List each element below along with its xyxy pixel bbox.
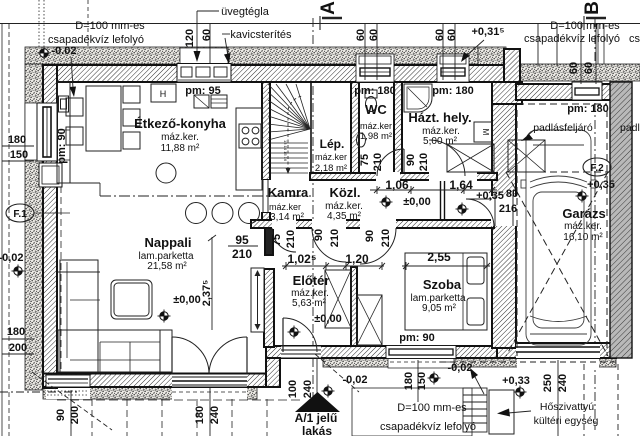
svg-text:120: 120 [184, 29, 196, 47]
svg-text:±0,00: ±0,00 [314, 313, 341, 325]
svg-text:90: 90 [405, 154, 417, 166]
svg-text:90: 90 [364, 230, 376, 242]
svg-text:240: 240 [557, 374, 569, 392]
svg-text:±0,00: ±0,00 [403, 196, 430, 208]
svg-text:csapadékvíz lefolyó: csapadékvíz lefolyó [524, 33, 620, 45]
svg-text:210: 210 [372, 153, 384, 171]
svg-text:210: 210 [329, 229, 341, 247]
svg-text:60: 60 [446, 29, 458, 41]
svg-text:240: 240 [302, 380, 314, 398]
svg-text:16,10 m²: 16,10 m² [563, 232, 603, 243]
svg-text:D=100 mm-es: D=100 mm-es [75, 20, 145, 32]
svg-text:B: B [582, 1, 603, 15]
svg-text:csapadékvíz lefolyó: csapadékvíz lefolyó [380, 421, 476, 433]
svg-text:máz.ker.: máz.ker. [161, 132, 199, 143]
svg-text:cs: cs [629, 33, 640, 45]
svg-text:90: 90 [55, 409, 67, 421]
svg-text:Lép.: Lép. [320, 137, 345, 151]
svg-text:180: 180 [8, 134, 26, 146]
svg-text:210: 210 [418, 153, 430, 171]
svg-text:11,88 m²: 11,88 m² [161, 143, 200, 154]
svg-text:pm: 90: pm: 90 [56, 128, 68, 163]
svg-text:Házt. hely.: Házt. hely. [408, 110, 471, 125]
svg-text:padlásfeljáró: padlásfeljáró [533, 122, 593, 134]
svg-text:90: 90 [313, 229, 325, 241]
svg-text:21,58 m²: 21,58 m² [147, 261, 187, 272]
svg-text:-0.02: -0.02 [51, 45, 76, 57]
svg-text:F.2: F.2 [590, 163, 604, 174]
svg-text:240: 240 [209, 406, 221, 424]
svg-text:Garázs: Garázs [562, 206, 605, 221]
svg-text:pm: 180: pm: 180 [432, 85, 474, 97]
svg-text:210: 210 [380, 229, 392, 247]
svg-text:60: 60 [434, 29, 446, 41]
svg-text:1,06: 1,06 [385, 178, 409, 192]
svg-text:150: 150 [416, 372, 428, 390]
svg-text:9,05 m²: 9,05 m² [422, 303, 457, 314]
svg-text:Nappali: Nappali [145, 235, 192, 250]
svg-text:60: 60 [568, 62, 580, 74]
svg-text:60: 60 [201, 29, 213, 41]
svg-text:100: 100 [287, 380, 299, 398]
svg-text:5,63 m²: 5,63 m² [292, 298, 327, 309]
svg-text:máz.ker.: máz.ker. [564, 221, 602, 232]
svg-text:-0,02: -0,02 [447, 362, 472, 374]
svg-text:Előtér: Előtér [293, 273, 330, 288]
svg-text:150: 150 [10, 149, 28, 161]
svg-text:pm: 95: pm: 95 [185, 85, 220, 97]
svg-text:D=100 mm-es: D=100 mm-es [550, 20, 620, 32]
svg-text:80: 80 [506, 188, 518, 200]
svg-text:75: 75 [359, 154, 371, 166]
svg-text:-0,02: -0,02 [0, 252, 24, 264]
svg-text:A/1 jelű: A/1 jelű [295, 411, 338, 425]
svg-text:kavicsterítés: kavicsterítés [230, 29, 292, 41]
svg-text:3,14 m²: 3,14 m² [270, 212, 305, 223]
svg-text:pm: 90: pm: 90 [399, 332, 434, 344]
svg-text:180: 180 [7, 326, 25, 338]
svg-text:216: 216 [499, 203, 517, 215]
svg-text:padlás: padlás [620, 122, 640, 134]
svg-text:95: 95 [235, 233, 249, 247]
svg-text:Közl.: Közl. [329, 185, 360, 200]
svg-text:2,18 m²: 2,18 m² [315, 163, 347, 174]
svg-text:13 14 15 16: 13 14 15 16 [283, 140, 288, 162]
svg-text:180: 180 [194, 406, 206, 424]
svg-text:+0,35: +0,35 [587, 179, 615, 191]
svg-text:Hőszivattyú: Hőszivattyú [540, 401, 594, 413]
svg-text:kültéri egység: kültéri egység [534, 415, 599, 427]
svg-text:H: H [160, 89, 167, 99]
svg-text:+0,31⁵: +0,31⁵ [472, 26, 505, 38]
svg-text:180: 180 [403, 372, 415, 390]
svg-text:-0,02: -0,02 [342, 374, 367, 386]
svg-text:2,37⁵: 2,37⁵ [201, 280, 213, 307]
svg-text:máz.ker: máz.ker [360, 121, 392, 131]
svg-text:üvegtégla: üvegtégla [221, 6, 270, 18]
svg-text:75: 75 [271, 234, 283, 246]
svg-text:Étkező-konyha: Étkező-konyha [134, 116, 227, 131]
svg-text:lakás: lakás [302, 424, 332, 436]
svg-text:5,00 m²: 5,00 m² [423, 136, 458, 147]
svg-text:A: A [318, 1, 339, 15]
svg-text:2,55: 2,55 [427, 250, 451, 264]
svg-text:pm: 180: pm: 180 [567, 103, 609, 115]
svg-text:210: 210 [232, 247, 252, 261]
svg-text:1,02⁵: 1,02⁵ [288, 252, 317, 266]
svg-text:+0,33: +0,33 [502, 375, 530, 387]
svg-text:Szoba: Szoba [423, 277, 462, 292]
svg-text:D=100 mm-es: D=100 mm-es [397, 402, 467, 414]
svg-text:4,35 m²: 4,35 m² [327, 211, 362, 222]
svg-text:1,98 m²: 1,98 m² [360, 131, 392, 142]
svg-text:F.1: F.1 [13, 209, 27, 220]
svg-text:Kamra: Kamra [268, 185, 309, 200]
svg-text:pm: 180: pm: 180 [354, 85, 396, 97]
svg-text:1,64: 1,64 [449, 178, 473, 192]
svg-text:M: M [481, 129, 490, 136]
svg-text:+0,35: +0,35 [476, 190, 504, 202]
svg-text:1,20: 1,20 [345, 252, 369, 266]
svg-text:máz.ker: máz.ker [269, 202, 301, 212]
svg-text:60: 60 [355, 29, 367, 41]
svg-text:±0,00: ±0,00 [173, 294, 200, 306]
svg-text:200: 200 [69, 406, 81, 424]
svg-text:máz.ker: máz.ker [315, 152, 347, 162]
svg-text:WC: WC [365, 102, 387, 117]
svg-text:210: 210 [285, 230, 297, 248]
svg-text:60: 60 [368, 29, 380, 41]
svg-text:200: 200 [9, 342, 27, 354]
svg-text:250: 250 [542, 374, 554, 392]
svg-text:60: 60 [583, 62, 595, 74]
